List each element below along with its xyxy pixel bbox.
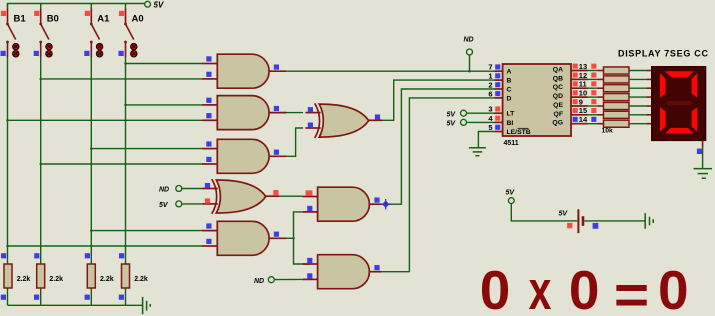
wire AND1 output to 4511 pin A (P0 net) <box>285 70 495 72</box>
svg-text:QA: QA <box>553 67 563 74</box>
wire XOR1 output to 4511 pin B (P1 net) <box>382 80 495 120</box>
svg-text:10: 10 <box>579 89 587 98</box>
segment C (lit) <box>692 107 698 132</box>
svg-text:7: 7 <box>488 63 492 72</box>
svg-text:2.2k: 2.2k <box>100 276 114 283</box>
svg-text:A: A <box>507 69 512 76</box>
svg-text:D: D <box>507 95 512 102</box>
indicator cursor diamond at AND5 output <box>381 199 391 209</box>
junction dot A0/AND2 tap <box>124 104 127 107</box>
svg-text:QF: QF <box>554 111 563 118</box>
svg-text:QB: QB <box>553 75 563 82</box>
svg-text:12: 12 <box>579 71 587 80</box>
result text 0 x 0 = 0 <box>480 259 689 316</box>
switch A0 (SW-SPDT) <box>119 4 144 58</box>
ground symbol bottom-left (rotated) <box>143 297 151 314</box>
wire AND5 output to 4511 pin C (P2 net) <box>380 89 495 204</box>
wire AND4 output to junction <box>285 237 294 239</box>
wire B0 to AND1 input B <box>41 78 203 80</box>
terminal 5V top-right <box>145 1 164 10</box>
wire A0 to AND2 input A <box>126 104 204 106</box>
and-gate AND4 (A1.B1) <box>202 221 286 255</box>
svg-text:5V: 5V <box>559 211 569 218</box>
svg-text:QC: QC <box>553 84 563 91</box>
pin D (6) <box>488 89 511 102</box>
svg-text:5V: 5V <box>447 121 457 128</box>
wire B0 column <box>40 57 42 305</box>
svg-text:x: x <box>529 259 552 316</box>
pin QE (9) with resistor 10k <box>553 97 651 109</box>
wire B1 column <box>7 57 9 305</box>
junction dot A1/AND3 tap <box>90 147 93 150</box>
pin LE/STB (5) to ground <box>478 123 530 148</box>
svg-text:11: 11 <box>579 80 587 89</box>
svg-text:10k: 10k <box>602 128 614 135</box>
segment B (lit) <box>692 73 698 98</box>
svg-text:15: 15 <box>579 106 587 115</box>
ground symbol below display <box>694 169 713 179</box>
svg-text:B1: B1 <box>14 14 27 25</box>
pin QA (13) with resistor 10k <box>553 62 652 74</box>
wire AND3 output to XOR1 input B <box>285 128 303 156</box>
terminal ND (AND6 input B) <box>254 277 303 285</box>
switch A1 (SW-SPDT) <box>84 4 110 58</box>
and-gate AND2 (A0.B1) <box>202 96 286 130</box>
segment D (lit) <box>665 128 694 134</box>
segment A (lit) <box>665 71 694 77</box>
terminal ND top (on P0 net) <box>464 37 474 73</box>
pin QF (15) with resistor 10k <box>554 106 652 118</box>
wire 5V top rail <box>8 4 145 9</box>
switch B0 (SW-SPDT) <box>34 4 59 58</box>
pin C (2) <box>488 80 511 93</box>
svg-text:9: 9 <box>579 97 583 106</box>
svg-text:ND: ND <box>254 278 264 285</box>
terminal ND (XOR2 input A) <box>159 186 203 194</box>
svg-text:5: 5 <box>488 123 492 132</box>
svg-text:A1: A1 <box>97 14 110 25</box>
pin LT (3) with 5V terminal <box>447 105 516 119</box>
junction dot B1/AND2 tap <box>6 119 9 122</box>
and-gate AND5 (P2) <box>303 187 382 221</box>
svg-text:=: = <box>614 265 649 316</box>
svg-text:6: 6 <box>488 89 492 98</box>
wire AND2 output to XOR1 input A <box>285 112 303 114</box>
svg-text:LE/STB: LE/STB <box>507 129 531 136</box>
svg-text:B0: B0 <box>47 14 59 25</box>
terminal 5V battery branch <box>506 190 578 221</box>
svg-text:A0: A0 <box>132 14 144 25</box>
xor-gate XOR1 (P1) <box>305 103 382 138</box>
wire A0 to AND1 input A <box>126 63 204 65</box>
segment F (lit) <box>660 73 666 98</box>
wire XOR2 output to AND5 input A <box>279 195 303 197</box>
svg-text:QE: QE <box>553 102 563 109</box>
resistor R1 2.2k <box>1 253 31 300</box>
wire B1 to AND4 input B <box>8 245 204 247</box>
junction dot AND4 output <box>292 237 295 240</box>
wire bottom ground rail <box>8 304 143 306</box>
svg-text:C: C <box>507 87 512 94</box>
junction dot B1/AND4 tap <box>6 245 9 248</box>
pin QC (11) with resistor 10k <box>553 80 652 92</box>
svg-text:5V: 5V <box>447 111 457 118</box>
wire junction vertical AND5.B / AND6.A <box>294 212 311 264</box>
display common pin to ground <box>697 141 703 169</box>
segment E (lit) <box>660 107 666 132</box>
pin B (1) <box>488 72 511 85</box>
svg-text:ND: ND <box>464 37 474 44</box>
switch B1 (SW-SPDT) <box>1 4 27 58</box>
junction dot B0/AND1 tap <box>39 78 42 81</box>
svg-text:5V: 5V <box>159 202 169 209</box>
svg-text:DISPLAY 7SEG CC: DISPLAY 7SEG CC <box>618 49 709 59</box>
svg-text:0: 0 <box>658 259 689 316</box>
wire A1 to AND4 input A <box>91 230 203 232</box>
resistor R2 2.2k <box>34 253 63 300</box>
junction dot A0/AND1 tap <box>124 62 127 65</box>
svg-text:13: 13 <box>579 62 587 71</box>
wire AND6 output to 4511 pin D (P3 net) <box>380 98 495 272</box>
and-gate AND1 (A0.B0 -> P0) <box>202 54 286 88</box>
svg-text:5V: 5V <box>154 1 164 10</box>
svg-text:2.2k: 2.2k <box>134 276 148 283</box>
svg-text:QG: QG <box>552 120 563 127</box>
svg-text:BI: BI <box>507 120 514 127</box>
and-gate AND6 (P3) <box>303 255 382 289</box>
wire A1 column <box>90 57 92 305</box>
svg-text:3: 3 <box>488 105 492 114</box>
wire A1 to AND3 input A <box>91 148 203 150</box>
display DS1 7-segment common-cathode body <box>652 67 706 141</box>
ground symbol below 4511 <box>469 148 486 156</box>
wire B1 to AND2 input B <box>8 119 204 121</box>
svg-text:QD: QD <box>553 93 563 100</box>
resistor R3 2.2k <box>85 253 114 300</box>
wire B0 to AND3 input B <box>41 163 203 165</box>
svg-text:2.2k: 2.2k <box>49 276 63 283</box>
pin A (7) <box>488 63 511 76</box>
segment G (off) <box>666 101 693 105</box>
and-gate AND3 (A1.B0) <box>202 139 286 173</box>
svg-text:4511: 4511 <box>504 140 519 147</box>
svg-text:B: B <box>507 78 512 85</box>
resistor R4 2.2k <box>119 253 148 300</box>
wire A0 column <box>125 57 127 305</box>
svg-text:0: 0 <box>569 259 600 316</box>
svg-text:ND: ND <box>159 187 169 194</box>
terminal 5V (XOR2 input B) <box>159 201 203 209</box>
pin QD (10) with resistor 10k <box>553 89 652 101</box>
svg-text:5V: 5V <box>506 190 516 197</box>
svg-text:1: 1 <box>488 72 492 81</box>
svg-text:14: 14 <box>579 115 588 124</box>
xor-gate XOR2 (inputs ND,5V) <box>203 179 280 214</box>
svg-text:LT: LT <box>507 111 516 118</box>
indicator square on XOR2 output net <box>306 190 311 195</box>
pin QB (12) with resistor 10k <box>553 71 652 83</box>
junction dot B0/AND3 tap <box>39 163 42 166</box>
svg-text:0: 0 <box>480 259 511 316</box>
svg-text:2: 2 <box>488 80 492 89</box>
op IC U2 4511 BCD to 7-segment latch decoder <box>503 64 571 147</box>
pin QG (14) with resistor 10k <box>552 115 651 127</box>
junction dot A1/AND4 tap <box>90 229 93 232</box>
ground symbol right of battery (rotated) <box>645 213 653 229</box>
pin BI (4) with 5V terminal <box>447 114 514 128</box>
battery BAT1 5V <box>559 209 646 233</box>
svg-text:2.2k: 2.2k <box>17 276 31 283</box>
